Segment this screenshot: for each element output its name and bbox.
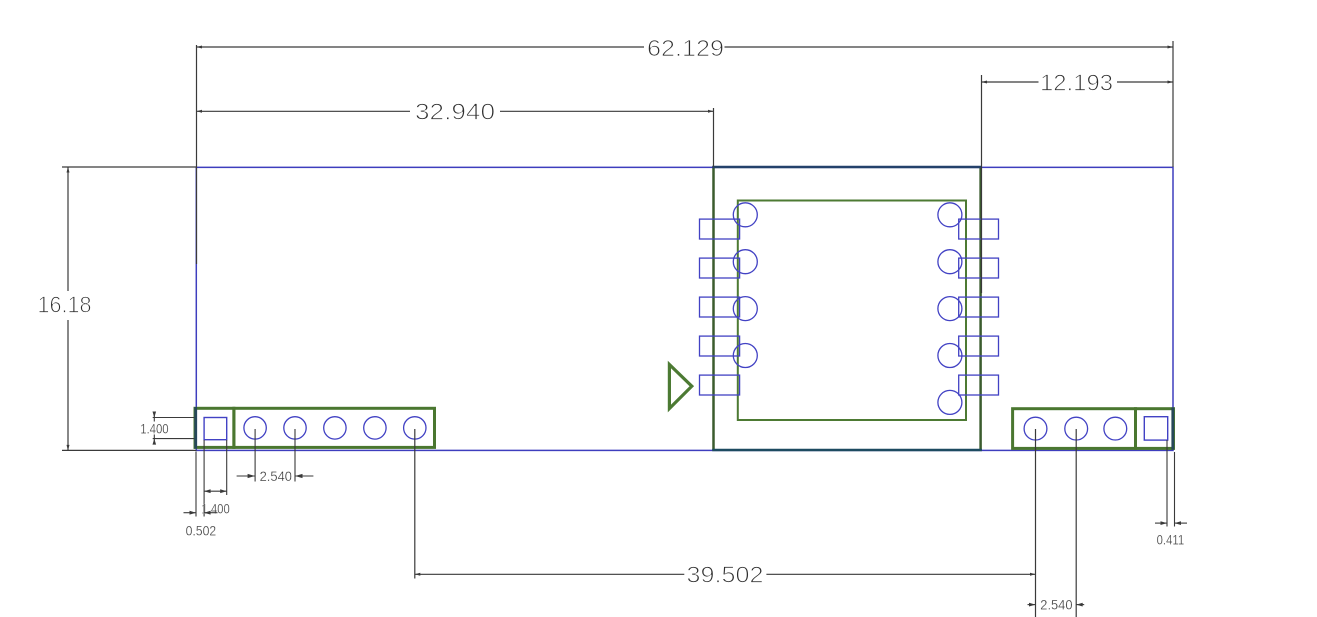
dimension 39.502 arrow right bbox=[1030, 573, 1036, 576]
dimension 2.540 (J2 pitch) extension line bbox=[1075, 429, 1077, 617]
svg-text:1.400: 1.400 bbox=[201, 502, 229, 517]
connector J1 hole 3 bbox=[284, 417, 306, 439]
module U1 outline top edge bbox=[712, 166, 982, 169]
dimension 39.502 line bbox=[415, 573, 1036, 575]
dimension 16.18 arrow bottom bbox=[67, 445, 70, 451]
dimension 0.502 extension line (board edge) bbox=[195, 452, 197, 517]
dimension 16.18 extension line top bbox=[62, 166, 197, 168]
dimension 39.502 extension line right bbox=[1035, 429, 1037, 617]
svg-text:12.193: 12.193 bbox=[1040, 69, 1113, 95]
hole A3 bbox=[733, 297, 757, 321]
dimension 1.400 (pad width) extension lines bbox=[204, 440, 227, 517]
dimension 0.411 extension line left bbox=[1166, 440, 1168, 526]
dimension 12.193 line bbox=[982, 81, 1174, 83]
pin 4 pad bbox=[700, 336, 740, 356]
connector J2 hole 3 bbox=[1104, 417, 1127, 440]
hole A1 bbox=[733, 203, 757, 227]
dimension 16.18 arrow top bbox=[67, 167, 70, 173]
hole B2 bbox=[938, 250, 962, 274]
hole B5 bbox=[938, 390, 962, 414]
dimension 0.502 line with arrows bbox=[184, 512, 218, 514]
connector J1 round-pad cell bbox=[234, 408, 435, 447]
dimension 39.502 extension line left bbox=[414, 429, 416, 579]
dimension 0.411 line with arrows bbox=[1155, 522, 1187, 524]
dimension 32.940 extension line right bbox=[713, 108, 715, 167]
dimension 16.18 extension line bottom bbox=[62, 449, 197, 451]
connector J2 hole 1 bbox=[1024, 417, 1047, 440]
dimension 32.940 arrow left bbox=[197, 110, 203, 113]
pin 9 pad bbox=[959, 258, 999, 278]
dimension 2.540 (J1 pitch) line with arrows bbox=[237, 475, 314, 477]
svg-text:1.400: 1.400 bbox=[140, 422, 168, 437]
dimension 12.193 extension line left bbox=[981, 75, 983, 293]
module U1 outline right edge bbox=[979, 167, 982, 450]
dimension 32.940 arrow right bbox=[708, 110, 714, 113]
svg-text:16.18: 16.18 bbox=[38, 292, 92, 318]
dimension 1.400 (pad height) line bbox=[153, 413, 155, 445]
dimension 1.400 (pad width) line with arrows bbox=[204, 490, 227, 492]
dimension 0.411 extension line right bbox=[1174, 452, 1176, 527]
pin 7 pad bbox=[959, 336, 999, 356]
through-holes right column bbox=[938, 203, 962, 415]
pin 10 pad bbox=[959, 219, 999, 239]
hole A2 bbox=[733, 250, 757, 274]
connector J1 hole 5 bbox=[364, 417, 386, 439]
pin-1 marker triangle bbox=[669, 365, 691, 409]
pin pads left column bbox=[700, 219, 740, 395]
connector J2 square-pad cell bbox=[1136, 409, 1174, 449]
dimension 39.502 arrow left bbox=[415, 573, 421, 576]
dimension 32.940 line bbox=[197, 110, 714, 112]
module U1 outline left edge bbox=[712, 167, 715, 450]
pin pads right column bbox=[959, 219, 999, 395]
dimension 1.400 (pad height) label bbox=[139, 422, 170, 437]
hole B3 bbox=[938, 297, 962, 321]
connector J2 hole 2 bbox=[1065, 417, 1088, 440]
pin 5 pad bbox=[700, 375, 740, 395]
dimension 2.540 (J1 pitch) extension lines bbox=[255, 429, 295, 482]
svg-text:0.502: 0.502 bbox=[186, 523, 217, 538]
connector J1 hole 4 bbox=[324, 417, 346, 439]
hole B1 bbox=[938, 203, 962, 227]
dimension 62.129 arrow right bbox=[1168, 46, 1174, 49]
dimension 62.129 arrow left bbox=[197, 46, 203, 49]
pin 3 pad bbox=[700, 297, 740, 317]
connector J2 square pad bbox=[1144, 417, 1167, 440]
connector J2 round-pad cell bbox=[1013, 409, 1136, 449]
board outline bbox=[196, 167, 1173, 450]
svg-text:39.502: 39.502 bbox=[687, 562, 764, 588]
svg-text:2.540: 2.540 bbox=[260, 469, 292, 484]
pin 2 pad bbox=[700, 258, 740, 278]
connector J2 right edge over board edge bbox=[1171, 407, 1174, 449]
dimension 2.540 (J2 pitch) line with arrows bbox=[1028, 604, 1085, 606]
connector J1 square pad 1 bbox=[204, 418, 227, 440]
dimension 62.129 line bbox=[197, 46, 1174, 48]
dimension 62.129 extension line left bbox=[196, 45, 198, 264]
connector J1 square-pad cell bbox=[195, 408, 234, 447]
dimension 16.18 line bbox=[67, 167, 69, 450]
dimension 2.540 (J2 pitch) label bbox=[1040, 598, 1074, 613]
pin 1 pad bbox=[700, 219, 740, 239]
dimension 12.193 arrow left bbox=[982, 81, 988, 84]
connector J1 left edge over board edge bbox=[194, 407, 197, 449]
pin 6 pad bbox=[959, 375, 999, 395]
svg-text:2.540: 2.540 bbox=[1040, 598, 1072, 613]
svg-text:62.129: 62.129 bbox=[647, 35, 724, 61]
dimension 1.400 (pad height) arrow top bbox=[153, 412, 157, 418]
hole B4 bbox=[938, 344, 962, 368]
pin 8 pad bbox=[959, 297, 999, 317]
dimension 62.129 extension line right bbox=[1172, 41, 1174, 167]
svg-text:0.411: 0.411 bbox=[1157, 532, 1185, 547]
dimension 1.400 (pad height) extension lines bbox=[153, 418, 197, 439]
IC body inner rectangle bbox=[738, 201, 966, 421]
connector J1 hole 2 bbox=[244, 417, 266, 439]
dimension 1.400 (pad height) arrow bottom bbox=[153, 439, 157, 445]
dimension 12.193 arrow right bbox=[1168, 81, 1174, 84]
connector J1 hole 6 bbox=[404, 417, 426, 439]
hole A4 bbox=[733, 344, 757, 368]
svg-text:32.940: 32.940 bbox=[415, 99, 495, 125]
through-holes left column bbox=[733, 203, 757, 368]
module U1 outline bottom edge bbox=[712, 449, 982, 452]
